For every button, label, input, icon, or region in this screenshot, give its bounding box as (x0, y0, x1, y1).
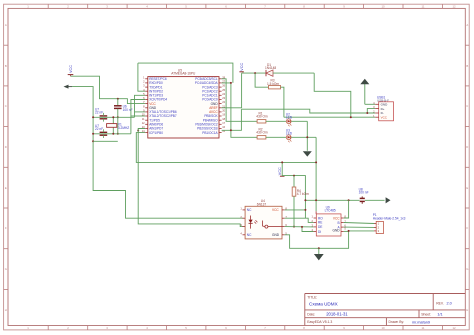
capacitor U7 22nF (second) (95, 124, 107, 138)
node junction R3 branch (254, 72, 256, 74)
svg-text:D-: D- (381, 111, 384, 115)
junction node (302.0,226.9) (301, 226, 303, 228)
svg-text:B: B (466, 64, 468, 68)
svg-text:Drawn By:: Drawn By: (389, 320, 405, 324)
junction node (230.9,130.3) (230, 129, 232, 131)
wire XCK / XTAL2 ladder (131, 100, 145, 134)
wire W1 PC5 to R1 (222, 79, 258, 122)
net arrow right (end of rail) (386, 197, 391, 203)
U5 left pin stubs (145, 79, 148, 133)
wire PB2 row (222, 109, 242, 130)
svg-text:G: G (5, 267, 7, 271)
capacitor U8 100nF (359, 187, 369, 203)
junction node (305.4,209.9) (304, 209, 306, 211)
resistor R1 430 Om (256, 111, 286, 123)
svg-text:2018-01-31: 2018-01-31 (326, 312, 348, 317)
wire W2 PC4 to R2 (222, 83, 258, 137)
wire opto pin6 to DE / DI (285, 226, 314, 228)
svg-text:PB1/OC1A: PB1/OC1A (202, 131, 218, 135)
svg-text:430 Om: 430 Om (256, 131, 268, 135)
svg-text:12: 12 (452, 326, 456, 330)
junction node (138.2,130.5) (137, 130, 139, 132)
wire XTAL1 rail (93, 116, 134, 118)
crystal X1 3.2MHZ (107, 116, 130, 135)
ground arrow below LEDs (303, 151, 312, 156)
svg-text:F: F (466, 226, 468, 230)
LTC485 top pin stub (315, 211, 317, 214)
ground arrow bottom (314, 248, 324, 260)
header P1 Header-Male-2.54_1x3 (373, 213, 406, 234)
junction node (316.1,162.4) (315, 161, 317, 163)
wire LTC485 vcc stub column (315, 201, 317, 211)
svg-text:E: E (5, 186, 7, 190)
wire D- long line to USB (241, 109, 375, 113)
junction node (113.3,117.3) (112, 116, 114, 118)
U5 right pin stubs (219, 79, 222, 133)
svg-text:11: 11 (422, 5, 425, 9)
junction node (367.3,113.0) (366, 112, 368, 114)
resistor R3 1.5kOm (255, 73, 284, 117)
op-amp style IC body U5 (148, 68, 219, 138)
U5 right pin names (195, 77, 219, 135)
resistor R2 430 Om (256, 127, 286, 139)
svg-text:B: B (5, 64, 7, 68)
svg-text:1/1: 1/1 (437, 312, 442, 316)
svg-text:12: 12 (452, 5, 456, 9)
junction node (318.8,248.3) (318, 247, 320, 249)
wire GND row to header (344, 230, 349, 232)
svg-text:H: H (5, 308, 7, 312)
svg-text:NC: NC (247, 233, 252, 237)
junction node (350.8,117.2) (350, 116, 352, 118)
wire opto pin7 to RE (285, 218, 314, 222)
resistor R4 4.7kOm (vertical) (292, 176, 309, 227)
net flag VCC (bottom) (278, 167, 284, 176)
svg-text:3.2MHZ: 3.2MHZ (118, 126, 129, 130)
wire VCC bottom distribution (282, 162, 305, 218)
svg-text:EasyEDA V5.1.3: EasyEDA V5.1.3 (307, 320, 332, 324)
title block (305, 294, 466, 326)
wire ICP1 down to long rail (136, 133, 316, 163)
wire INT0 from top loop (138, 63, 145, 91)
junction node (93.1,141.3) (92, 140, 94, 142)
wire AREF to VCC flag (222, 73, 242, 108)
opto internal LED (249, 220, 253, 224)
net flag VCC (top-left) (68, 65, 74, 76)
junction node (294.0,226.6) (293, 226, 295, 228)
wire INT1 / XTAL1 ladder (135, 95, 146, 117)
ground net flag (left arrow) (64, 85, 73, 89)
junction node (348.6,200.3) (348, 199, 350, 201)
RS485 transceiver U9 LTC485 (312, 205, 347, 236)
svg-text:VCC: VCC (333, 216, 340, 220)
junction node (117.8,133.8) (117, 133, 119, 135)
svg-text:RE: RE (318, 221, 322, 225)
ground flag above USB (up arrow) (360, 79, 375, 105)
svg-text:4.7 kOm: 4.7 kOm (297, 192, 309, 196)
U5 pin numbers (142, 75, 226, 133)
wire A to header (344, 226, 374, 228)
node junction VCC rail / C top (117, 98, 119, 100)
svg-text:1.5 kOm: 1.5 kOm (267, 82, 279, 86)
U5 left pin names (149, 77, 177, 135)
junction node (113.3,133.8) (112, 133, 114, 135)
node junctions on U6 vertical (117, 116, 119, 118)
svg-text:LED: LED (286, 116, 293, 120)
wire LTC485 VCC jog to rail (344, 200, 349, 218)
opto internal output (263, 221, 265, 227)
VCC rail to LTC485 (305, 199, 359, 201)
wire opto VCC to rail (285, 209, 306, 211)
svg-text:DE: DE (318, 225, 322, 229)
wire AIN1/PD7 to opto (path B) (138, 129, 243, 227)
optocoupler U4 6N137 (240, 199, 287, 239)
svg-text:VCC: VCC (240, 63, 244, 71)
svg-text:GND: GND (333, 228, 341, 232)
svg-text:VCC: VCC (278, 167, 282, 175)
svg-text:D: D (5, 145, 7, 149)
wire B to header (344, 223, 374, 224)
svg-text:Header-Male-2.54_1x3: Header-Male-2.54_1x3 (373, 216, 406, 220)
svg-text:VCC: VCC (69, 65, 73, 73)
junction node (307.3,137.3) (306, 136, 308, 138)
svg-text:10: 10 (381, 5, 385, 9)
junction node (294.0,175.6) (293, 175, 295, 177)
junction node (316.1,200.3) (315, 199, 317, 201)
svg-text:2.0: 2.0 (447, 302, 452, 306)
junction node (305.4,200.3) (304, 199, 306, 201)
svg-text:ATMEGA8-16PU: ATMEGA8-16PU (171, 72, 196, 76)
wire VCC to USB pin1 (284, 116, 375, 118)
junction node (282.2,162.4) (281, 161, 283, 163)
wire D1 staircase to USB VCC (314, 73, 351, 117)
wire opto GND down and around (285, 231, 349, 248)
wire VCC flag to rail (71, 76, 146, 103)
svg-text:22 nF: 22 nF (95, 111, 103, 115)
svg-text:GND: GND (272, 233, 280, 237)
wire XTAL2 rail (93, 133, 131, 135)
LED U2 (286, 112, 293, 126)
svg-text:1N4148: 1N4148 (265, 66, 276, 70)
svg-text:430 Om: 430 Om (256, 115, 268, 119)
svg-text:LTC485: LTC485 (325, 209, 336, 213)
svg-text:6N137: 6N137 (257, 203, 267, 207)
svg-text:VCC: VCC (381, 116, 388, 120)
connector USB1 USB-B-F (373, 95, 393, 120)
node junctions GND vertical (92, 116, 94, 118)
svg-text:DI: DI (318, 230, 321, 234)
svg-text:A: A (466, 23, 468, 27)
wire GND bottom rail (93, 140, 118, 142)
wire D+ jog (367, 109, 375, 113)
wire LED column down (306, 121, 308, 151)
svg-text:Date:: Date: (307, 312, 315, 316)
junction node (93.1,133.8) (92, 133, 94, 135)
svg-text:mr.mafan9: mr.mafan9 (412, 320, 430, 324)
svg-text:C: C (466, 104, 468, 108)
svg-text:G: G (466, 267, 468, 271)
svg-text:LED: LED (286, 132, 293, 136)
svg-text:E: E (466, 186, 468, 190)
svg-text:TITLE:: TITLE: (307, 295, 317, 299)
svg-text:RO: RO (318, 216, 323, 220)
LED U3 (286, 128, 293, 142)
svg-text:D: D (466, 145, 468, 149)
svg-text:11: 11 (422, 326, 425, 330)
capacitor U6 100nF (114, 99, 133, 134)
svg-text:10: 10 (381, 326, 385, 330)
svg-text:100 nF: 100 nF (359, 191, 369, 195)
svg-text:C: C (5, 104, 7, 108)
svg-text:Схема UDMX: Схема UDMX (309, 301, 338, 306)
wire GND flag down-left rail (72, 87, 243, 219)
svg-text:H: H (466, 308, 468, 312)
svg-text:F: F (5, 226, 7, 230)
svg-text:VCC: VCC (272, 208, 279, 212)
junction node (348.6,230.9) (348, 230, 350, 232)
svg-text:ICP1/PB0: ICP1/PB0 (149, 131, 163, 135)
wire VCC flag to D1 (242, 72, 266, 74)
diode D1 1N4148 (265, 63, 314, 77)
svg-text:A: A (5, 23, 7, 27)
svg-text:22 nF: 22 nF (95, 127, 103, 131)
svg-text:NC: NC (247, 208, 252, 212)
wire LED row to LTC485 vcc column (315, 137, 317, 201)
capacitor U7 22nF (first) (95, 108, 107, 122)
svg-text:REV.: REV. (436, 302, 444, 306)
net flag VCC (near D1) (239, 63, 244, 72)
junction node (230.9,82.9) (230, 82, 232, 84)
svg-text:Sheet:: Sheet: (421, 312, 431, 316)
wire top loop horizontal (138, 63, 233, 83)
